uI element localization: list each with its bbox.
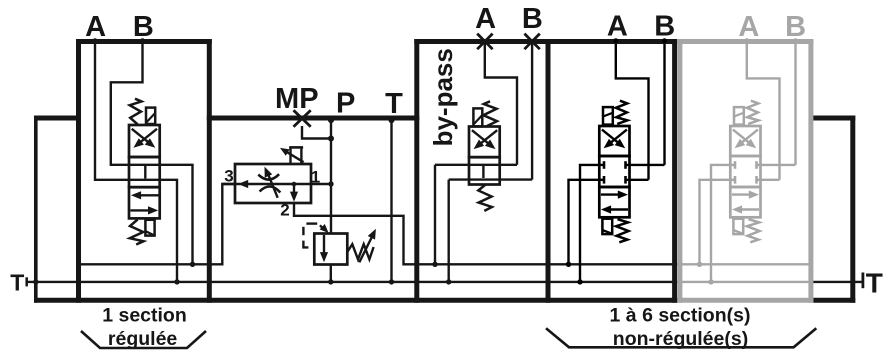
section block 1 top edge — [76, 39, 212, 44]
ghost section bottom edge (grey) — [677, 298, 813, 303]
valve V3 box3 left arrow — [606, 208, 628, 210]
plugged port B by-pass (X mark) — [524, 34, 539, 50]
valve V4 ghost section valve (clone of V3, grey) — [697, 38, 798, 284]
wire by-pass lower line down to tank — [448, 180, 450, 282]
wire T port down — [390, 118, 392, 282]
right T port tick — [862, 273, 865, 289]
wire valve3 lower-left stub to gallery — [569, 180, 605, 264]
wire regulator port 3 to section 1 gallery — [79, 184, 236, 264]
brace under section 1 — [81, 331, 206, 348]
left T port tick — [25, 277, 28, 286]
valve V3 blocked port tick lower-left — [603, 176, 606, 184]
flow regulator FR1 body — [235, 164, 311, 203]
wire by-pass valve upper line across — [435, 164, 517, 166]
section block 1 (regulated) left border — [76, 39, 81, 303]
svg-text:B: B — [785, 11, 806, 43]
plugged port A by-pass (X mark) — [477, 34, 492, 50]
relief valve pilot arrow — [320, 225, 325, 230]
valve V3 box1 crossed arrow (TR to BL) — [608, 130, 627, 146]
svg-text:A: A — [738, 11, 759, 43]
relief valve pilot dashed line vertical dash 2 with corner — [303, 241, 308, 248]
bottom edge (black, left of ghost section) — [34, 298, 677, 303]
wire valve3 upper-left stub to tank — [580, 165, 604, 282]
flow regulator left flow arrowhead — [238, 180, 248, 188]
tank line T (black, right end) — [811, 281, 862, 283]
valve V1 bottom spring — [130, 220, 144, 245]
node B port section3 — [662, 38, 667, 43]
inlet block / by-pass block shared border — [414, 39, 419, 303]
envelope right vertical — [850, 116, 855, 303]
section block 1 / inlet block shared border — [207, 39, 212, 303]
wire valve3 lower-right stub — [626, 179, 649, 181]
valve V1 box2 center connector stub — [144, 166, 146, 179]
section block 3 right border — [672, 39, 677, 303]
wire regulator port 1 to P — [311, 183, 331, 185]
regulator pilot arrow — [285, 151, 304, 163]
valve V1 box1 crossed arrow (TL to BR) — [132, 129, 152, 145]
valve V2 bottom spring — [478, 185, 492, 211]
node T on inlet top edge — [388, 117, 394, 123]
valve V2 top spring — [483, 101, 497, 126]
valve V2 (by-pass) top detent box — [473, 108, 482, 126]
valve V2 top detent diagonal — [474, 116, 482, 125]
ghost tank line segment (grey) — [677, 281, 811, 283]
valve V1 position box 3 — [129, 187, 160, 218]
svg-text:T: T — [10, 269, 24, 295]
svg-text:MP: MP — [275, 83, 319, 115]
svg-text:3: 3 — [224, 167, 233, 186]
wire valve3 upper-right stub — [626, 164, 665, 166]
relief valve adjust arrow — [359, 236, 372, 263]
valve V1 box3 right arrow — [131, 209, 153, 211]
valve V1 top detent box — [146, 108, 155, 124]
valve V3 bottom spring — [616, 219, 629, 242]
ghost section right border (grey) — [808, 39, 813, 303]
valve V3 top spring — [616, 101, 628, 124]
svg-text:1 section: 1 section — [102, 305, 187, 327]
valve V3 position box 2 (closed centre) — [599, 156, 629, 187]
valve V2 box1 crossed arrow (TR to BL) — [478, 130, 498, 146]
valve V3 top detent box — [603, 107, 613, 125]
svg-text:T: T — [866, 268, 883, 299]
valve V1 top detent diagonal — [147, 113, 155, 122]
node A port section3 — [613, 38, 618, 43]
svg-text:A: A — [475, 3, 496, 35]
valve V3 blocked port tick upper-right — [624, 161, 627, 169]
by-pass block / section block 3 shared border — [546, 39, 551, 303]
envelope top-right stub — [810, 116, 855, 121]
svg-text:B: B — [654, 11, 675, 43]
valve V2 position box 2 — [469, 157, 500, 184]
tank line T (black, main run) — [27, 281, 678, 283]
valve V3 group (section 3, also cloned for ghost section) — [566, 38, 667, 284]
node A port section 1 — [93, 38, 98, 43]
wire B by-pass down to valve lower line — [531, 44, 533, 180]
wire A by-pass down with jog to valve upper line — [485, 44, 517, 165]
relief valve pilot dashed line vertical dash 1 — [302, 227, 304, 235]
valve V3 top detent diagonal — [603, 113, 612, 117]
flow regulator throttle bottom arc — [260, 186, 281, 192]
node by-pass to tank line — [446, 279, 451, 284]
wire MP to P line — [302, 126, 331, 139]
valve V2 box1 crossed arrow (TL to BR) — [472, 130, 492, 146]
envelope left vertical — [34, 116, 38, 303]
regulator pilot symbol left leg — [289, 147, 291, 163]
relief valve RV1 body — [314, 234, 347, 265]
node valve3 to gallery — [566, 262, 571, 267]
valve V1 top spring — [130, 99, 142, 125]
node T port to tank line — [389, 279, 394, 284]
node T line bottom of relief — [328, 279, 333, 284]
node: T junction on envelope left — [33, 279, 38, 284]
wire regulator port 2 to by-pass gallery — [294, 203, 677, 264]
wire by-pass valve lower line across — [449, 178, 532, 180]
flow regulator throttle top arc — [258, 174, 279, 179]
bottom edge (black, right of ghost section) — [813, 298, 855, 303]
node regulator port 2 branch — [292, 182, 297, 187]
node valve3 to tank line — [577, 279, 582, 284]
relief valve pilot dashed line horizontal dash — [306, 222, 317, 224]
wire relief valve outlet to tank line — [330, 265, 332, 282]
regulator pilot symbol top bar — [289, 146, 303, 149]
node B port section 1 — [140, 38, 145, 43]
svg-text:non-régulée(s): non-régulée(s) — [613, 328, 748, 350]
svg-text:P: P — [336, 88, 355, 120]
wire P supply down — [330, 118, 332, 234]
valve V3 bottom detent diagonal — [603, 230, 612, 234]
ghost section top edge (grey) — [677, 39, 813, 44]
wire A port section 1 (A down, across valve at y180, down to T) — [95, 41, 177, 282]
valve V3 position box 3 — [599, 187, 629, 217]
svg-text:by-pass: by-pass — [428, 48, 458, 146]
valve V1 box1 crossed arrow (TR to BL) — [137, 129, 157, 145]
relief valve internal arrow — [323, 235, 325, 253]
node valve1 to gallery — [190, 262, 195, 267]
relief valve spring — [348, 244, 374, 259]
svg-text:2: 2 — [280, 201, 289, 220]
valve V1 box3 left arrow — [136, 194, 159, 196]
valve V3 bottom detent box — [602, 219, 612, 234]
inlet block top edge — [207, 116, 419, 121]
svg-text:B: B — [522, 3, 543, 35]
valve V2 box2 center connector stub — [482, 166, 484, 178]
svg-text:1 à 6 section(s): 1 à 6 section(s) — [610, 305, 751, 327]
svg-text:T: T — [385, 88, 403, 120]
envelope top-left stub — [34, 116, 81, 121]
plugged inlet port MP (X mark) — [294, 110, 311, 127]
wire by-pass upper line down to gallery — [434, 165, 436, 264]
valve V3 box3 right arrow — [601, 193, 623, 195]
brace under sections 2-6 — [546, 328, 816, 347]
valve V2 position box 1 — [469, 127, 500, 158]
valve V3 blocked port tick lower-right — [624, 176, 627, 184]
flow regulator adjust arrow — [267, 172, 278, 198]
flow regulator main line port3-port1 — [222, 183, 311, 185]
svg-text:régulée: régulée — [108, 328, 178, 350]
svg-text:A: A — [85, 11, 106, 43]
ghost gallery segment (grey) — [677, 263, 811, 265]
node valve1 to tank line — [174, 279, 179, 284]
svg-text:1: 1 — [311, 168, 320, 187]
wire A section3 down with jog to valve lower line — [616, 44, 649, 180]
ghost section left border (grey) — [677, 39, 682, 303]
node P joins regulator port 1 — [328, 181, 333, 186]
valve V3 position box 1 — [599, 126, 629, 156]
node P on inlet top edge — [328, 117, 334, 123]
by-pass + section 3 top edge — [414, 39, 677, 44]
wire B port section 1 (B down, jog, across valve at y164.8, down to gallery) — [111, 41, 193, 264]
regulator pilot symbol right leg — [300, 147, 302, 163]
flow regulator port 2 internal arrow — [293, 184, 295, 194]
valve V1 bottom detent diagonal — [146, 231, 154, 235]
valve V1 position box 1 — [129, 125, 160, 157]
node by-pass to gallery — [432, 262, 437, 267]
valve V3 box1 crossed arrow (TL to BR) — [602, 130, 621, 146]
svg-text:B: B — [133, 11, 154, 43]
node MP joins P — [328, 136, 334, 142]
svg-text:A: A — [607, 11, 628, 43]
valve V1 position box 2 — [129, 157, 160, 187]
valve V3 blocked port tick upper-left — [603, 161, 606, 169]
valve V1 bottom detent box — [145, 220, 154, 236]
wire B section3 down to valve upper line — [663, 44, 665, 165]
